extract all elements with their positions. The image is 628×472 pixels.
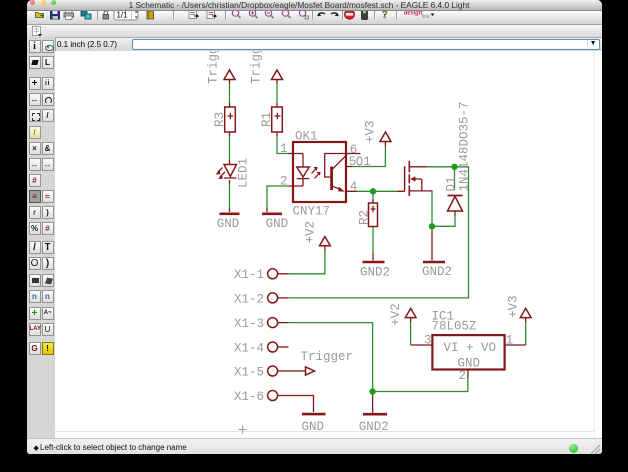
svg-text:X1-3: X1-3 [234,317,264,331]
svg-text:GND: GND [302,420,325,434]
svg-text:+V3: +V3 [507,295,521,318]
svg-text:+V2: +V2 [389,303,403,326]
svg-text:2: 2 [459,369,467,383]
svg-text:?: ? [382,11,388,21]
svg-text:GND2: GND2 [422,265,452,279]
svg-text:1/1: 1/1 [116,11,128,20]
svg-text:link: link [422,14,430,20]
svg-text:R2: R2 [358,210,372,225]
svg-text:Trigge: Trigge [207,51,221,84]
svg-text:GND: GND [458,356,481,370]
svg-text:R1: R1 [260,112,274,127]
svg-text:GND2: GND2 [360,266,390,280]
svg-text:D1: D1 [445,176,459,191]
svg-text:X1-2: X1-2 [234,293,264,307]
svg-text:3: 3 [424,334,432,348]
svg-text:LED1: LED1 [237,158,251,188]
svg-text:1: 1 [506,334,514,348]
svg-text:design: design [404,11,423,17]
svg-text:X1-1: X1-1 [234,268,264,282]
svg-text:X1-4: X1-4 [234,341,264,355]
svg-text:GND2: GND2 [359,420,389,434]
svg-text:78L05Z: 78L05Z [432,319,478,333]
svg-text:R3: R3 [213,112,227,127]
svg-text:GND: GND [266,217,289,231]
svg-text:Trigger: Trigger [301,350,354,364]
svg-text:X1-5: X1-5 [234,366,264,380]
svg-text:X1-6: X1-6 [234,390,264,404]
svg-text:Trigge: Trigge [250,51,264,84]
svg-text:+V3: +V3 [364,120,378,143]
svg-text:OK1: OK1 [295,130,318,144]
svg-text:CNY17: CNY17 [293,205,331,219]
svg-text:Q1: Q1 [356,155,371,169]
svg-text:+V2: +V2 [304,221,318,244]
svg-text:4: 4 [350,180,358,194]
svg-text:1: 1 [280,142,288,156]
svg-text:2: 2 [280,175,288,189]
svg-text:GND: GND [217,217,240,231]
svg-text:1N4148DO35-7: 1N4148DO35-7 [458,101,472,191]
svg-text:VI + VO: VI + VO [444,341,497,355]
